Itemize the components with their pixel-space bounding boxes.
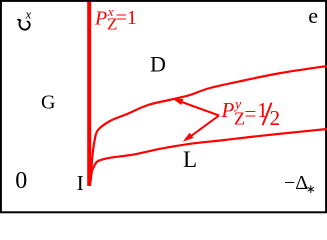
svg-text:2: 2	[270, 106, 281, 130]
svg-text:G: G	[41, 92, 55, 114]
label -Delta_* (x-axis label)	[283, 174, 315, 196]
label box P_Z^x=1	[93, 10, 140, 33]
lower red curve (P_Z^y = 1/2 boundary, lower branch)	[91, 129, 327, 182]
svg-text:−Δ: −Δ	[284, 172, 308, 194]
svg-text:x: x	[25, 8, 32, 22]
svg-text:0: 0	[15, 168, 27, 194]
svg-text:L: L	[183, 147, 197, 172]
label L	[182, 150, 197, 174]
label G	[40, 94, 56, 115]
arrow to lower curve	[183, 116, 219, 142]
svg-text:P: P	[221, 98, 235, 122]
red vertical line (P_Z^x = 1 boundary)	[87, 2, 91, 186]
upper red curve (P_Z^y = 1/2 boundary, upper branch)	[91, 66, 327, 176]
svg-text:D: D	[150, 52, 166, 77]
zeta glyph (rotated, drawn as path)	[18, 20, 30, 30]
label box zeta^x (y-axis label)	[14, 11, 35, 30]
label box P_Z^y=1/2	[220, 100, 284, 124]
svg-text:=: =	[245, 102, 257, 126]
label 0 (origin)	[13, 171, 29, 190]
label I	[75, 175, 85, 194]
label D	[149, 55, 167, 77]
svg-text:∗: ∗	[306, 182, 316, 196]
svg-text:P: P	[94, 8, 107, 30]
svg-text:Z: Z	[234, 109, 245, 129]
label e (top right)	[307, 9, 320, 30]
arrow to upper curve	[172, 98, 219, 115]
svg-text:I: I	[77, 171, 84, 195]
svg-text:=1: =1	[116, 7, 137, 29]
svg-text:e: e	[308, 3, 318, 28]
